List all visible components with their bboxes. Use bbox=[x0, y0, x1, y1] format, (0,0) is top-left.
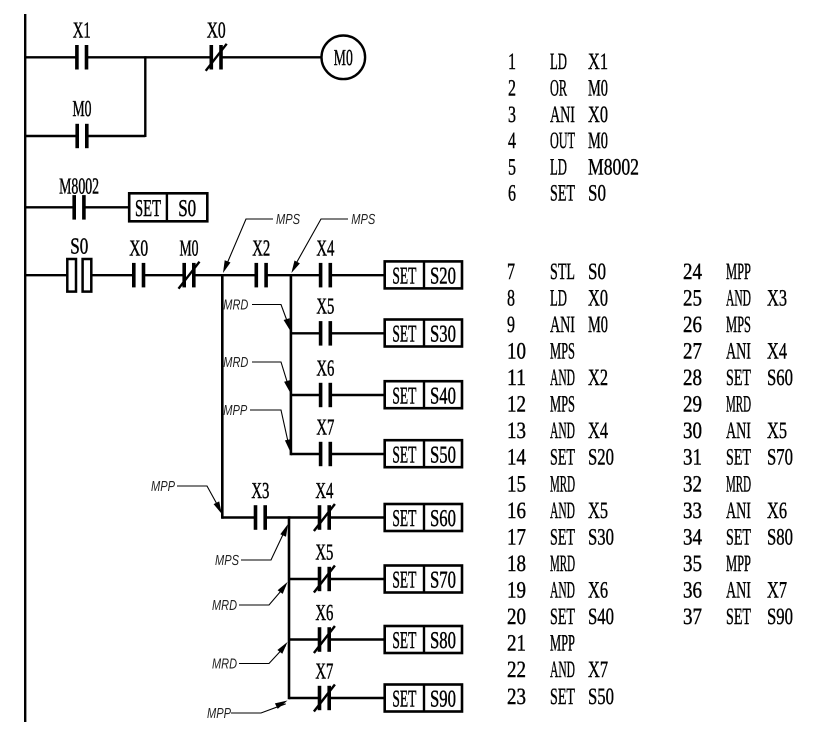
SET S50 box bbox=[385, 440, 462, 468]
svg-text:17: 17 bbox=[507, 524, 526, 550]
wire rung5 c bbox=[329, 516, 385, 518]
wire rung5 a bbox=[222, 516, 255, 518]
svg-text:AND: AND bbox=[550, 498, 575, 524]
annotation MRD 2 bbox=[223, 355, 290, 393]
annotation MPP 1 bbox=[223, 403, 291, 452]
svg-text:37: 37 bbox=[683, 604, 702, 630]
coil M0 bbox=[322, 36, 366, 80]
wire rung1 left bbox=[25, 56, 77, 58]
svg-text:36: 36 bbox=[683, 578, 702, 604]
svg-text:26: 26 bbox=[683, 312, 702, 338]
svg-text:X4: X4 bbox=[588, 418, 608, 444]
svg-text:MPP: MPP bbox=[151, 479, 175, 495]
svg-text:15: 15 bbox=[507, 471, 526, 497]
svg-text:S60: S60 bbox=[430, 506, 456, 532]
svg-text:SET: SET bbox=[392, 628, 416, 654]
svg-text:S40: S40 bbox=[588, 604, 614, 630]
svg-text:STL: STL bbox=[550, 259, 575, 285]
annotation MPP 3 bbox=[207, 701, 288, 723]
svg-text:8: 8 bbox=[507, 285, 515, 311]
annotation MPS 1 bbox=[223, 212, 300, 273]
SET S0 box bbox=[129, 193, 207, 222]
svg-text:AND: AND bbox=[550, 578, 575, 604]
svg-text:X4: X4 bbox=[315, 478, 333, 503]
svg-text:11: 11 bbox=[507, 365, 526, 391]
wire branch row S40 bbox=[291, 394, 321, 396]
svg-text:SET: SET bbox=[392, 687, 416, 713]
svg-text:SET: SET bbox=[550, 181, 575, 207]
svg-text:SET: SET bbox=[550, 604, 575, 630]
svg-text:X6: X6 bbox=[588, 578, 608, 604]
svg-text:X6: X6 bbox=[767, 498, 787, 524]
svg-text:X5: X5 bbox=[767, 418, 787, 444]
branch vertical V2 bbox=[290, 274, 293, 455]
svg-text:X3: X3 bbox=[767, 285, 787, 311]
svg-text:ANI: ANI bbox=[550, 102, 575, 128]
svg-text:M0: M0 bbox=[588, 312, 608, 338]
svg-text:MPS: MPS bbox=[550, 392, 575, 418]
svg-text:28: 28 bbox=[683, 365, 702, 391]
svg-text:SET: SET bbox=[392, 442, 416, 468]
svg-text:27: 27 bbox=[683, 339, 702, 365]
wire to box S30 bbox=[330, 332, 384, 334]
svg-text:20: 20 bbox=[507, 604, 526, 630]
svg-text:LD: LD bbox=[550, 49, 567, 75]
svg-text:MRD: MRD bbox=[212, 598, 237, 614]
svg-text:ANI: ANI bbox=[550, 312, 575, 338]
svg-text:M0: M0 bbox=[180, 236, 199, 261]
wire rung3 bbox=[25, 206, 74, 208]
svg-text:SET: SET bbox=[726, 445, 751, 471]
svg-text:X6: X6 bbox=[315, 600, 333, 625]
svg-text:X7: X7 bbox=[588, 657, 608, 683]
svg-text:19: 19 bbox=[507, 578, 526, 604]
svg-text:X5: X5 bbox=[316, 294, 334, 319]
contact X7 (NC) bbox=[314, 658, 335, 711]
svg-text:M8002: M8002 bbox=[59, 173, 99, 198]
svg-text:S0: S0 bbox=[588, 181, 606, 207]
svg-text:30: 30 bbox=[683, 418, 702, 444]
svg-text:X5: X5 bbox=[588, 498, 608, 524]
svg-text:7: 7 bbox=[507, 259, 515, 285]
svg-text:S30: S30 bbox=[430, 322, 456, 348]
svg-text:M0: M0 bbox=[73, 96, 92, 121]
svg-text:3: 3 bbox=[508, 102, 516, 128]
instruction list rows 1-6 bbox=[508, 49, 639, 207]
svg-text:MPP: MPP bbox=[550, 631, 575, 657]
wire branch row S80 bbox=[289, 638, 320, 640]
svg-text:SET: SET bbox=[726, 365, 751, 391]
svg-text:ANI: ANI bbox=[726, 339, 751, 365]
svg-text:LD: LD bbox=[550, 154, 567, 180]
svg-text:MPP: MPP bbox=[207, 706, 231, 722]
svg-text:ANI: ANI bbox=[726, 498, 751, 524]
contact X1 bbox=[73, 18, 91, 70]
svg-text:AND: AND bbox=[550, 418, 575, 444]
wire rung4 d bbox=[266, 274, 321, 276]
svg-text:S70: S70 bbox=[767, 445, 793, 471]
svg-text:AND: AND bbox=[550, 657, 575, 683]
wire rung1 mid bbox=[87, 56, 212, 58]
svg-text:MRD: MRD bbox=[726, 471, 751, 497]
svg-text:SET: SET bbox=[550, 445, 575, 471]
instruction list rows 7-23 bbox=[507, 259, 614, 710]
svg-text:6: 6 bbox=[508, 181, 516, 207]
contact M0 bbox=[73, 96, 92, 148]
svg-text:S70: S70 bbox=[430, 568, 456, 594]
svg-text:2: 2 bbox=[508, 76, 516, 102]
svg-text:OR: OR bbox=[550, 76, 567, 102]
svg-text:MPP: MPP bbox=[726, 259, 751, 285]
svg-text:S0: S0 bbox=[178, 196, 196, 222]
svg-text:X7: X7 bbox=[316, 414, 334, 439]
contact M0 (NC) bbox=[179, 236, 200, 289]
annotation MPP 2 bbox=[151, 479, 222, 514]
SET S60 box bbox=[385, 504, 462, 532]
wire rung4 e bbox=[330, 274, 384, 276]
svg-text:34: 34 bbox=[683, 524, 702, 550]
svg-text:M0: M0 bbox=[588, 128, 608, 154]
SET S40 box bbox=[385, 381, 462, 409]
wire rung2 bbox=[25, 135, 77, 137]
branch vertical V1 bbox=[221, 274, 224, 519]
contact X2 bbox=[252, 236, 270, 288]
svg-text:35: 35 bbox=[683, 551, 702, 577]
svg-text:13: 13 bbox=[507, 418, 526, 444]
svg-text:S0: S0 bbox=[70, 234, 88, 259]
svg-text:X0: X0 bbox=[588, 285, 608, 311]
svg-text:LD: LD bbox=[550, 285, 567, 311]
svg-text:SET: SET bbox=[392, 264, 416, 290]
svg-text:S40: S40 bbox=[430, 383, 456, 409]
svg-text:33: 33 bbox=[683, 498, 702, 524]
SET S20 box bbox=[385, 261, 462, 289]
wire rung2 right bbox=[87, 135, 146, 137]
wire to box S50 bbox=[330, 453, 384, 455]
wire rung4 b bbox=[144, 274, 185, 276]
annotation MRD 3 bbox=[212, 582, 288, 614]
svg-text:AND: AND bbox=[726, 285, 751, 311]
SET S70 box bbox=[385, 566, 462, 594]
svg-text:1: 1 bbox=[508, 49, 516, 75]
svg-text:X5: X5 bbox=[315, 539, 333, 564]
svg-text:MPS: MPS bbox=[215, 553, 239, 569]
svg-text:12: 12 bbox=[507, 392, 526, 418]
svg-text:S90: S90 bbox=[430, 687, 456, 713]
svg-text:S90: S90 bbox=[767, 604, 793, 630]
svg-text:S80: S80 bbox=[767, 524, 793, 550]
svg-text:MRD: MRD bbox=[212, 657, 237, 673]
wire rung5 b bbox=[265, 516, 319, 518]
svg-text:MPS: MPS bbox=[276, 212, 300, 228]
svg-text:SET: SET bbox=[550, 524, 575, 550]
STL contact S0 bbox=[67, 234, 91, 292]
svg-text:S0: S0 bbox=[588, 259, 606, 285]
svg-text:S50: S50 bbox=[588, 684, 614, 710]
contact X0 (NC) bbox=[206, 18, 227, 71]
svg-text:M0: M0 bbox=[588, 76, 608, 102]
svg-text:X6: X6 bbox=[316, 355, 334, 380]
left power rail bbox=[24, 14, 26, 722]
svg-text:ANI: ANI bbox=[726, 578, 751, 604]
svg-text:29: 29 bbox=[683, 392, 702, 418]
contact X3 bbox=[251, 478, 269, 530]
svg-text:10: 10 bbox=[507, 339, 526, 365]
svg-text:31: 31 bbox=[683, 445, 702, 471]
svg-text:X2: X2 bbox=[588, 365, 608, 391]
wire branch row S90 bbox=[289, 697, 320, 699]
svg-text:S60: S60 bbox=[767, 365, 793, 391]
svg-text:4: 4 bbox=[508, 128, 516, 154]
svg-text:SET: SET bbox=[135, 196, 161, 222]
SET S30 box bbox=[385, 320, 462, 348]
wire branch row S50 bbox=[291, 453, 321, 455]
svg-text:S50: S50 bbox=[430, 442, 456, 468]
svg-text:X4: X4 bbox=[316, 236, 334, 261]
svg-text:X4: X4 bbox=[767, 339, 787, 365]
svg-text:MPS: MPS bbox=[550, 339, 575, 365]
svg-text:SET: SET bbox=[726, 604, 751, 630]
contact X7 bbox=[316, 414, 334, 466]
svg-text:S20: S20 bbox=[588, 445, 614, 471]
svg-text:24: 24 bbox=[683, 259, 702, 285]
svg-text:MPP: MPP bbox=[726, 551, 751, 577]
svg-text:X7: X7 bbox=[767, 578, 787, 604]
svg-text:MRD: MRD bbox=[550, 551, 575, 577]
svg-text:AND: AND bbox=[550, 365, 575, 391]
svg-text:X1: X1 bbox=[73, 18, 91, 43]
annotation MRD 4 bbox=[212, 642, 288, 673]
svg-text:SET: SET bbox=[392, 322, 416, 348]
wire rung3 right bbox=[84, 206, 129, 208]
contact X6 (NC) bbox=[314, 600, 335, 653]
svg-text:18: 18 bbox=[507, 551, 526, 577]
svg-text:X0: X0 bbox=[207, 18, 226, 43]
contact X6 bbox=[316, 355, 334, 407]
svg-text:MRD: MRD bbox=[223, 298, 248, 314]
wire to box S80 bbox=[329, 638, 385, 640]
svg-text:14: 14 bbox=[507, 445, 526, 471]
annotation MRD 1 bbox=[223, 298, 290, 332]
svg-text:SET: SET bbox=[726, 524, 751, 550]
svg-text:M8002: M8002 bbox=[588, 154, 639, 180]
svg-text:S20: S20 bbox=[430, 264, 456, 290]
svg-text:5: 5 bbox=[508, 154, 516, 180]
wire branch vertical rung1/rung2 bbox=[144, 56, 146, 137]
branch vertical V3 bbox=[288, 516, 291, 699]
wire to box S40 bbox=[330, 394, 384, 396]
svg-text:ANI: ANI bbox=[726, 418, 751, 444]
svg-text:SET: SET bbox=[392, 568, 416, 594]
svg-text:S30: S30 bbox=[588, 524, 614, 550]
wire rung1 right bbox=[221, 56, 321, 58]
svg-text:OUT: OUT bbox=[550, 128, 575, 154]
wire rung4 left bbox=[25, 274, 68, 276]
wire branch row S30 bbox=[291, 332, 321, 334]
contact X4 (NC) bbox=[314, 478, 335, 531]
instruction list rows 24-37 bbox=[683, 259, 793, 630]
svg-text:X0: X0 bbox=[129, 236, 148, 261]
contact X4 bbox=[316, 236, 334, 288]
svg-text:MPS: MPS bbox=[726, 312, 751, 338]
svg-text:9: 9 bbox=[507, 312, 515, 338]
svg-text:X0: X0 bbox=[588, 102, 608, 128]
annotation MPS 2 bbox=[291, 212, 375, 273]
svg-text:MRD: MRD bbox=[223, 355, 248, 371]
annotation MPS 3 bbox=[215, 524, 288, 569]
svg-text:23: 23 bbox=[507, 684, 526, 710]
svg-text:X2: X2 bbox=[252, 236, 270, 261]
svg-text:MPS: MPS bbox=[351, 212, 375, 228]
svg-text:25: 25 bbox=[683, 285, 702, 311]
svg-text:MRD: MRD bbox=[550, 471, 575, 497]
svg-text:MPP: MPP bbox=[223, 403, 247, 419]
svg-text:S80: S80 bbox=[430, 628, 456, 654]
wire to box S90 bbox=[329, 697, 385, 699]
contact M8002 bbox=[59, 173, 99, 219]
SET S80 box bbox=[385, 626, 462, 654]
wire rung4 c bbox=[194, 274, 257, 276]
wire branch row S70 bbox=[289, 578, 320, 580]
svg-text:MRD: MRD bbox=[726, 392, 751, 418]
svg-text:X7: X7 bbox=[315, 658, 333, 683]
svg-text:X3: X3 bbox=[251, 478, 269, 503]
svg-text:SET: SET bbox=[392, 506, 416, 532]
wire rung4 a bbox=[93, 274, 134, 276]
svg-text:22: 22 bbox=[507, 657, 526, 683]
contact X5 (NC) bbox=[314, 539, 335, 592]
contact X0 bbox=[129, 236, 148, 288]
svg-text:X1: X1 bbox=[588, 49, 608, 75]
svg-text:SET: SET bbox=[392, 383, 416, 409]
SET S90 box bbox=[385, 685, 462, 713]
contact X5 bbox=[316, 294, 334, 346]
svg-text:32: 32 bbox=[683, 471, 702, 497]
svg-text:16: 16 bbox=[507, 498, 526, 524]
svg-text:21: 21 bbox=[507, 631, 526, 657]
svg-text:SET: SET bbox=[550, 684, 575, 710]
wire to box S70 bbox=[329, 578, 385, 580]
svg-text:M0: M0 bbox=[334, 45, 353, 70]
